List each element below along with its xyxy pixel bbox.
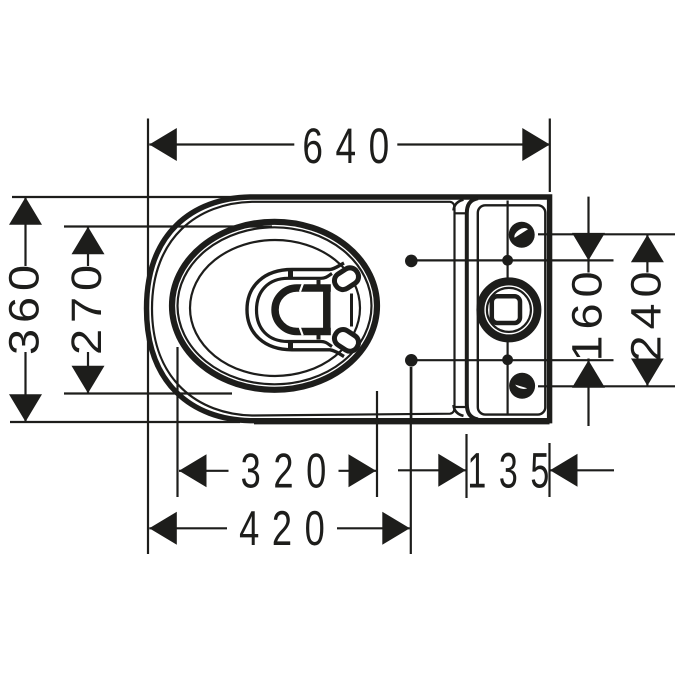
arrow 360 top [9, 197, 42, 225]
dim line 360 [24, 197, 26, 421]
arrow 240 bottom [631, 358, 664, 386]
tank shoulder top [454, 200, 464, 211]
ext line 420 left lower [147, 276, 149, 554]
hinge bar [323, 285, 331, 336]
arrow 270 top [72, 227, 105, 255]
ext line 320 left [176, 347, 178, 497]
flush valve square [492, 296, 520, 323]
ext line 135 right [548, 443, 550, 497]
ext line 420 right [410, 367, 412, 554]
body outer contour [147, 197, 550, 421]
ext line 270 top [64, 225, 272, 227]
body bottom edge emphasis [254, 418, 550, 424]
arrow 270 bottom [72, 366, 105, 394]
ext line 320 right [376, 391, 378, 497]
arrow 640 right [522, 128, 550, 161]
text 240 [622, 266, 670, 362]
seat ring outer [172, 222, 377, 390]
tank shoulder bottom [454, 405, 464, 416]
ref line bolt bottom [538, 385, 675, 387]
ext line 640 left [147, 119, 149, 277]
ext line 360 bottom [10, 421, 240, 423]
hinge tick bottom [288, 341, 293, 349]
svg-text:420: 420 [239, 502, 337, 556]
svg-text:640: 640 [302, 118, 401, 174]
arrow 160 bottom [572, 360, 605, 388]
text 640 [294, 118, 402, 174]
tank lid inner outline [478, 205, 546, 414]
bolt hole top slash [514, 228, 528, 238]
ext line 135 left [465, 434, 467, 498]
hinge plate line [350, 294, 353, 327]
bowl inner offset line [152, 202, 455, 416]
tank dot top [502, 255, 513, 266]
bolt hole bottom slash [515, 385, 527, 389]
seat dot top [405, 255, 418, 268]
ext line seat dot bottom [410, 367, 412, 420]
dim line 160 [587, 197, 589, 426]
text 160 [564, 266, 612, 362]
ext line 360 top [12, 196, 240, 198]
arrow 320 right [349, 454, 377, 487]
tank front connector bottom [455, 406, 467, 408]
hinge outer horseshoe [247, 263, 344, 357]
arrow 320 left [179, 454, 207, 487]
arrow 160 top [572, 233, 605, 261]
svg-text:360: 360 [1, 259, 49, 355]
dim line 640 [149, 143, 550, 145]
hinge cap top [331, 265, 361, 293]
text 270 [63, 259, 111, 355]
svg-text:270: 270 [63, 259, 111, 355]
dim line 135 left approach [398, 469, 466, 471]
svg-text:320: 320 [241, 445, 339, 499]
hinge link top [317, 280, 321, 288]
arrow 420 left [149, 512, 177, 545]
hinge thick D [275, 288, 331, 332]
valve vertical line [507, 201, 509, 415]
arrow 135 right [550, 454, 578, 487]
seat ring inner offset [178, 227, 372, 384]
hinge link bottom [317, 332, 321, 340]
ref line dot bottom [417, 359, 614, 361]
tank dot bottom [502, 354, 513, 365]
bolt hole top [509, 222, 535, 248]
text 420 [227, 502, 337, 556]
svg-text:160: 160 [564, 266, 612, 362]
flush valve thin ring [487, 288, 531, 332]
seat hole line [190, 240, 360, 376]
hinge D notch top [299, 283, 304, 292]
text 320 [229, 445, 339, 499]
hinge D notch bottom [299, 326, 304, 335]
dim line 420 [149, 527, 410, 529]
arrow 640 left [149, 128, 177, 161]
seat dot bottom [405, 354, 418, 367]
ext line 640 right [549, 119, 551, 193]
svg-text:135: 135 [467, 443, 561, 499]
dim line 270 [87, 227, 89, 393]
tank front connector top [455, 212, 467, 214]
text 135 [467, 443, 561, 499]
text 360 [1, 259, 49, 355]
hinge tick top [288, 271, 293, 279]
arrow 360 bottom [9, 394, 42, 422]
arrow 240 top [631, 235, 664, 262]
arrow 135 left [438, 454, 466, 487]
tank front edge line B [467, 198, 478, 419]
ref line dot top [417, 259, 614, 261]
dim line 240 [646, 235, 648, 386]
flush valve outer ring [480, 281, 537, 338]
svg-text:240: 240 [622, 266, 670, 362]
arrow 420 right [382, 512, 410, 545]
hinge middle horseshoe [257, 274, 333, 347]
ext line 270 bottom [64, 392, 232, 394]
hinge cap bottom [331, 326, 361, 354]
ref line bolt top [538, 233, 675, 235]
dim line 135 right approach [550, 469, 614, 471]
dim line 320 [179, 470, 376, 472]
bolt hole bottom [509, 373, 535, 399]
